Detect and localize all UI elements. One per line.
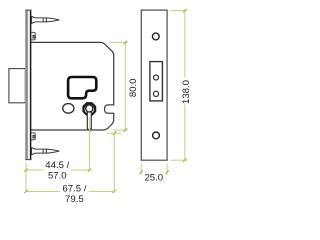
- faceplate top screw hole: [152, 33, 159, 40]
- dimension 138.0: bottom tick: [183, 159, 186, 162]
- dimension 44.5/57.0: left tick: [24, 168, 27, 171]
- svg-text:57.0: 57.0: [48, 171, 67, 182]
- dimension 138.0: dimension line upper segment: [184, 11, 186, 78]
- dimension 25.0: right tick: [165, 170, 168, 173]
- dimension 67.5/79.5: offset line tick: [113, 132, 116, 135]
- dimension 25.0: left tick: [140, 170, 143, 173]
- cutout plate lower hole: [153, 91, 158, 96]
- faceplate edge view: back face line: [30, 10, 32, 159]
- svg-text:79.5: 79.5: [65, 194, 84, 205]
- dimension 44.5/57.0: right tick: [88, 168, 91, 171]
- keyhole: inner circle: [86, 105, 93, 112]
- dimension 25.0: right extension line: [166, 164, 168, 175]
- dimension 80.0: top tick: [124, 41, 127, 44]
- faceplate edge view: top cap: [25, 9, 31, 11]
- dimension 80.0: dimension line: [124, 42, 126, 130]
- dimension 138.0: top tick: [183, 9, 186, 12]
- top fixing lug: [31, 32, 35, 40]
- oval hole: [63, 104, 74, 114]
- faceplate keyhole cutout plate: [150, 62, 163, 101]
- bottom fixing screw: [32, 148, 60, 155]
- svg-text:44.5 /: 44.5 /: [45, 160, 69, 171]
- cutout plate upper hole: [154, 75, 159, 80]
- dimension 67.5/79.5: dimension line right segment: [89, 190, 115, 192]
- dimension 44.5/57.0: left extension riser: [25, 162, 27, 191]
- svg-text:25.0: 25.0: [144, 172, 163, 183]
- dimension 80.0: top extension line: [109, 41, 127, 43]
- dimension 25.0: left extension line: [140, 164, 142, 175]
- bottom fixing lug: [31, 133, 35, 140]
- dimension 67.5/79.5: right tick: [113, 190, 116, 193]
- top fixing screw: [32, 16, 60, 23]
- keyhole: outer knurled ring: [83, 103, 95, 115]
- dimension 67.5/79.5: right extension line: [113, 133, 115, 191]
- dimension 67.5/79.5: left tick: [24, 190, 27, 193]
- dimension 67.5/79.5: case-back offset line: [107, 132, 122, 134]
- dimension 80.0: bottom tick: [124, 128, 127, 131]
- dimension 138.0: bottom extension line: [171, 159, 187, 161]
- lock case outline: [31, 42, 114, 130]
- svg-text:80.0: 80.0: [128, 78, 139, 97]
- bottom lug inner stud: [32, 135, 34, 139]
- dimension 80.0: bottom extension line: [113, 129, 128, 131]
- spindle follower hole: [68, 77, 96, 98]
- deadbolt (side view, protruding left): [9, 69, 25, 103]
- keyhole centre extension line (green): [89, 117, 91, 170]
- faceplate edge view: bottom cap: [25, 159, 31, 161]
- dimension 44.5/57.0: dimension line left segment: [26, 169, 44, 171]
- dimension 67.5/79.5: dimension line left segment: [26, 190, 60, 192]
- faceplate edge view: front face (gray thick line): [25, 10, 28, 159]
- dimension 44.5/57.0: dimension line right segment: [71, 169, 90, 171]
- svg-text:138.0: 138.0: [181, 80, 192, 104]
- faceplate bottom screw hole: [153, 132, 160, 139]
- faceplate front view outline: [141, 10, 167, 160]
- dimension 138.0: top extension line: [171, 10, 187, 12]
- dimension 138.0: dimension line lower segment: [184, 104, 186, 160]
- keyhole: key slot: [87, 109, 91, 130]
- top lug inner stud: [32, 35, 34, 39]
